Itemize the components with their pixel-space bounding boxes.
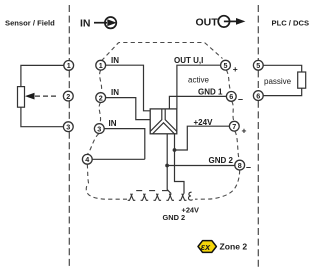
plc terminal 5 (253, 60, 263, 70)
wire terminal 3 down to terminal 4 wire (104, 129, 145, 160)
bus contact bar 1 (136, 190, 142, 192)
svg-text:Sensor / Field: Sensor / Field (5, 18, 55, 27)
wire OUT U,I: isolator to terminal 5 (177, 65, 221, 109)
svg-text:GND 1: GND 1 (198, 87, 223, 96)
wire GND 1: isolator top to terminal 6 (169, 96, 226, 109)
junction dot GND 2 (165, 164, 169, 168)
svg-text:passive: passive (264, 77, 292, 86)
svg-text:6: 6 (229, 92, 233, 101)
load resistor (298, 72, 306, 88)
wire resistor to plc terminal 6 (263, 88, 302, 95)
bus contact bar 2 (149, 190, 155, 192)
wire plc terminal 5 to resistor (263, 65, 302, 72)
svg-text:2: 2 (66, 92, 70, 101)
svg-text:OUT: OUT (196, 16, 219, 28)
wire +24V: terminal 7 to junction (175, 126, 230, 150)
zone boundary left (Sensor/Field) dashed line (68, 5, 70, 268)
svg-text:OUT U,I: OUT U,I (174, 56, 203, 65)
svg-text:PLC / DCS: PLC / DCS (272, 18, 310, 27)
plc terminal 6 (253, 91, 263, 101)
svg-text:3: 3 (97, 124, 101, 133)
svg-text:GND 2: GND 2 (209, 156, 234, 165)
svg-text:5: 5 (256, 61, 260, 70)
svg-text:2: 2 (99, 93, 103, 102)
wire isolator bottom A down to bus contact 4 (167, 134, 171, 194)
svg-text:1: 1 (99, 61, 103, 70)
svg-text:5: 5 (224, 61, 228, 70)
left sensor terminal 3 (63, 122, 73, 132)
left sensor terminal 1 (64, 61, 74, 71)
module dashed outline right column squiggles (195, 70, 240, 199)
bus contact fork 2 (141, 194, 149, 201)
svg-text:4: 4 (85, 155, 89, 164)
svg-text:1: 1 (67, 61, 71, 70)
bus contact fork 5 (+24V) (179, 194, 187, 201)
wire pot top to terminal 1 (21, 65, 64, 86)
wire terminal 2 to isolator (106, 98, 151, 120)
module dashed outline left column squiggles (86, 70, 127, 199)
svg-text:εx: εx (201, 242, 211, 252)
potentiometer wiper arrow (dashed from terminal 2) (35, 95, 59, 97)
svg-text:6: 6 (256, 91, 260, 100)
bus contact fork 1 (128, 194, 136, 201)
svg-text:–: – (246, 162, 251, 172)
wire pot bottom to terminal 3 (21, 107, 64, 127)
svg-text:8: 8 (238, 161, 242, 170)
module terminal 6 (226, 92, 236, 102)
isolator U1 box (150, 109, 177, 134)
wire isolator bottom B down to bus contact 5 (175, 134, 185, 194)
left sensor terminal 2 (63, 91, 73, 101)
wire terminal 1 to isolator (106, 65, 151, 111)
svg-text:7: 7 (232, 122, 236, 131)
module terminal 8 (235, 160, 245, 170)
module terminal 7 (229, 121, 239, 131)
svg-text:IN: IN (111, 56, 119, 65)
svg-text:IN: IN (80, 18, 91, 30)
module terminal 4 (82, 154, 92, 164)
wire GND 2: junction to terminal 8 (167, 165, 235, 167)
junction dot +24V (173, 148, 177, 152)
potentiometer body (18, 87, 25, 108)
svg-text:–: – (238, 94, 243, 104)
Ex hexagon Zone 2 (198, 241, 216, 253)
module terminal 2 (96, 93, 106, 103)
wire terminal 4 (92, 158, 145, 160)
svg-text:IN: IN (111, 88, 119, 97)
zone boundary right (PLC/DCS) dashed line (257, 5, 259, 268)
svg-text:+: + (233, 64, 238, 74)
module dashed outline top (102, 43, 223, 61)
module terminal 3 (94, 124, 104, 134)
svg-text:Zone 2: Zone 2 (220, 242, 248, 252)
svg-text:active: active (188, 76, 209, 85)
bus contact fork 3 (154, 194, 162, 201)
svg-text:IN: IN (109, 119, 117, 128)
bus contact fork 4 (GND 2) (166, 194, 174, 201)
svg-text:3: 3 (66, 123, 70, 132)
bus contact 6 (S-port squiggle) (188, 192, 192, 200)
svg-text:GND 2: GND 2 (163, 213, 186, 222)
module terminal 1 (96, 60, 106, 70)
svg-text:+: + (242, 126, 247, 136)
module terminal 5 (221, 60, 231, 70)
bus contact bar 3 (162, 190, 168, 192)
